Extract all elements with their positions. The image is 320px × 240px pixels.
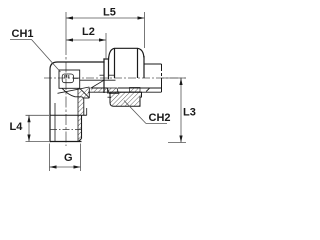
dimension G: [50, 144, 81, 172]
nut bore step in section: [130, 88, 141, 93]
svg-text:CH1: CH1: [12, 28, 34, 40]
body lower-right section: bore passage and break lines: [58, 87, 90, 142]
stud (male thread G): [50, 103, 82, 142]
svg-text:L3: L3: [183, 107, 196, 119]
body section hatch right of bore: [78, 88, 89, 116]
svg-text:G: G: [64, 152, 73, 164]
side port counterbore square: [59, 70, 80, 88]
svg-text:L4: L4: [10, 121, 24, 133]
thread glyph inside body: [62, 74, 78, 83]
boss lower wall hatch: [91, 88, 108, 92]
stud thread hatch: [78, 115, 82, 141]
tube stub: [144, 64, 162, 92]
dimension L4: [26, 115, 50, 141]
dimension L3: [162, 78, 186, 143]
svg-text:CH2: CH2: [149, 112, 171, 124]
svg-text:L2: L2: [82, 26, 95, 38]
tube walls in section (lower half): [88, 88, 162, 92]
internal bore lines: [80, 75, 116, 80]
stud hidden bore end (dashed): [50, 129, 82, 131]
horizontal centerline (side port axis): [44, 77, 186, 79]
ferrule in section: [108, 88, 119, 97]
vertical centerline (bottom port axis): [65, 12, 67, 146]
svg-text:L5: L5: [103, 7, 116, 19]
nut outline (upper half, exterior): [109, 48, 145, 79]
nut lower half in section: [110, 92, 142, 106]
dimension L5: [66, 12, 145, 48]
body outline: [50, 59, 109, 142]
shoulder (hex bottom): [50, 114, 87, 116]
dimension L2: [66, 33, 106, 59]
internal bore cone (section): [91, 80, 104, 88]
